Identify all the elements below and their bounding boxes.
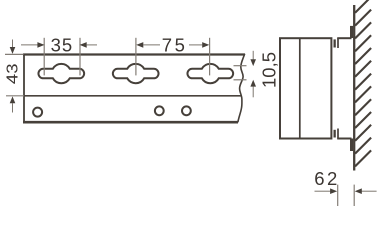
dim 75: left extension line <box>135 38 137 76</box>
side view: body rect <box>280 38 331 138</box>
wall screw head bottom <box>350 139 353 152</box>
rail front view: top edge <box>23 53 245 55</box>
svg-text:35: 35 <box>51 35 74 56</box>
dim 75: right arrow <box>202 42 209 48</box>
keyhole slot 1 <box>38 64 84 83</box>
dim 75: right extension line <box>209 38 211 76</box>
side view: top lip tab <box>334 39 336 47</box>
svg-text:62: 62 <box>314 168 340 189</box>
dim 43: bottom arrow <box>12 103 14 112</box>
dim 62: left arrow <box>315 190 331 192</box>
dim 35: right arrow <box>87 44 97 46</box>
round hole 1 <box>33 108 42 117</box>
rail front view: break line (wavy right end) <box>238 54 245 122</box>
svg-text:43: 43 <box>3 64 21 85</box>
keyhole slot 2 <box>113 64 159 83</box>
side view: bottom lip tab <box>334 130 336 138</box>
dim 62: left extension line <box>337 185 339 206</box>
wall screw head top <box>350 26 353 38</box>
dim 62: right arrow <box>362 190 377 192</box>
dim 35: left arrow <box>21 44 38 46</box>
wall line <box>353 5 355 171</box>
dim 43: bottom extension line <box>6 95 24 97</box>
svg-text:10,5: 10,5 <box>258 52 279 88</box>
dim 10,5: top arrow <box>252 51 254 60</box>
side view: bottom hook line to wall <box>337 138 351 140</box>
side view: top step line <box>337 38 339 48</box>
rail front view: left edge <box>23 54 25 124</box>
round hole 2 <box>155 106 164 115</box>
dim 10,5: bottom arrow <box>252 87 254 98</box>
keyhole slot 3 <box>187 64 233 83</box>
dim 62: right extension line <box>353 185 355 206</box>
side view: internal bend line <box>299 38 301 138</box>
wall hatching <box>355 0 371 166</box>
dim 35: left extension line <box>43 38 45 76</box>
round hole 3 <box>182 106 191 115</box>
svg-text:75: 75 <box>162 35 188 56</box>
dim 10,5: top tick line <box>234 65 247 67</box>
dim 43: top extension line <box>5 53 24 55</box>
dim 10,5: bottom tick line <box>234 79 247 81</box>
dim 75: left arrow <box>136 42 143 48</box>
rail front view: bottom edge <box>23 121 238 124</box>
dim 43: top arrow <box>12 40 14 48</box>
rail front view: divider line <box>24 95 241 97</box>
side view: bottom step line <box>337 129 339 139</box>
side view: top hook line to wall <box>337 37 351 39</box>
dim 35: right extension line <box>79 38 81 76</box>
